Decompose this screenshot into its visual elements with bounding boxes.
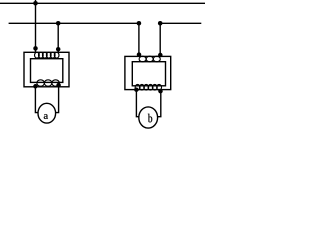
transformer T1 primary terminal dot left [33,46,38,51]
transformer T1 secondary terminal dot right [56,83,61,88]
transformer T1 primary terminal dot right [56,47,61,52]
wire T1 secondary left lead down to meter a [35,87,38,113]
transformer T2 primary terminal dot left [137,52,142,57]
wire vertical lead from L2 to transformer T2 primary left [138,23,140,56]
transformer T1 secondary terminal dot left [33,84,38,89]
transformer T1 core outer rectangle [24,52,69,87]
transformer T2 secondary terminal dot right [158,89,163,94]
node junction dot on L2 left break [137,21,142,26]
meter b label [148,114,152,123]
transformer T1 secondary winding (few turns) [37,80,60,86]
wire T2 secondary right lead down to meter b [158,91,161,117]
meter a circle [38,103,56,123]
wire supply line L2 right segment [160,22,201,24]
transformer T2 secondary winding (many turns) [135,85,161,91]
wire T1 secondary right lead down to meter a [56,85,59,113]
wire vertical lead from L1 to transformer T1 primary [35,0,37,53]
node junction dot on L1 [33,1,38,6]
transformer T2 core inner rectangle [132,62,165,86]
wire vertical lead from L2 to transformer T1 primary [57,23,59,52]
transformer T2 core outer rectangle [125,56,171,89]
wire supply line L1 [0,2,205,4]
node junction dot on L2 at T1 lead [56,21,61,26]
node junction dot on L2 right break [158,21,163,26]
transformer T2 primary terminal dot right [158,53,163,58]
transformer T2 primary winding (few turns) [139,56,160,62]
meter b circle [139,107,158,128]
transformer T2 secondary terminal dot left [134,87,139,92]
wire vertical lead from L2 to transformer T2 primary right [159,23,161,56]
meter a label [44,114,48,119]
wire supply line L2 left segment [9,22,139,24]
wire T2 secondary left lead down to meter b [136,90,139,117]
transformer T1 primary winding (many turns) [35,52,59,58]
transformer T1 core inner rectangle [31,59,63,83]
